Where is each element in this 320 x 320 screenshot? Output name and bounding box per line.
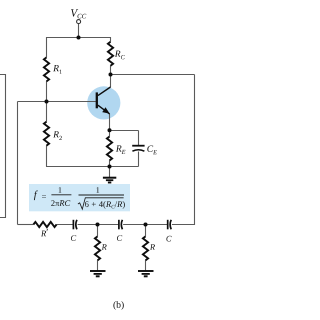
wire CE bottom lead: [138, 152, 140, 167]
resistor R1: [44, 57, 49, 81]
wire feedback vertical: [17, 102, 19, 225]
resistor R (ladder 1): [95, 236, 100, 260]
wire R' to C1: [56, 224, 72, 226]
formula equals: [42, 195, 46, 197]
caption (b): [113, 301, 123, 310]
wire emitter vertical: [109, 114, 111, 131]
formula f = 1/(2piRC) * 1/sqrt(6+4(Rc/R)): [34, 187, 125, 209]
capacitor C1: [73, 220, 77, 230]
node ladder junction 1: [96, 223, 100, 227]
ground under RE: [103, 178, 116, 183]
wire left branch upper: [46, 37, 48, 57]
formula fraction 1 denominator 2piRC: [51, 200, 70, 206]
ground under ladder R2: [138, 271, 154, 276]
wire CE top lead: [138, 131, 140, 146]
capacitor CE: [132, 146, 144, 152]
label RC: [115, 51, 125, 60]
wire collector stub: [110, 75, 112, 88]
formula f: [34, 191, 38, 201]
base bar: [96, 92, 98, 108]
label R1: [53, 65, 62, 74]
transistor Q1: [97, 87, 111, 114]
formula fraction 1 bar: [51, 194, 71, 196]
label R2: [53, 131, 62, 140]
label R': [41, 229, 48, 236]
wire base: [18, 101, 96, 103]
node Vcc junction: [77, 36, 81, 40]
node ladder junction 2: [144, 223, 148, 227]
wire ladder R1 bottom stem: [97, 260, 99, 270]
formula fraction 2 numerator: [96, 187, 99, 193]
wire ground1 stem: [109, 167, 111, 178]
wire RE bottom lead: [109, 161, 111, 167]
wire bottom bus: [46, 166, 139, 168]
formula radicand 6+4(Rc/R): [85, 201, 125, 209]
label R ladder 2: [150, 244, 155, 250]
wire left branch middle: [46, 81, 48, 122]
wire left stub from edge: [0, 75, 6, 218]
collector lead: [98, 87, 111, 96]
wire top bus: [47, 37, 111, 39]
wire C3 to right corner: [172, 224, 195, 226]
Vcc terminal circle: [77, 20, 81, 24]
wire RE top lead: [109, 131, 111, 137]
label Vcc: [71, 9, 86, 18]
wire Rc top lead: [110, 37, 112, 42]
node emitter junction: [108, 128, 112, 132]
label C2: [117, 235, 122, 241]
label RE: [116, 145, 126, 154]
capacitor C3: [168, 220, 172, 230]
label C3: [166, 236, 171, 242]
formula fraction 2 bar: [79, 194, 125, 196]
ground under ladder R1: [90, 271, 106, 276]
node collector junction: [109, 73, 113, 77]
node bottom bus ground junction: [108, 165, 112, 169]
resistor R2: [44, 122, 49, 146]
formula highlight box: [29, 184, 130, 211]
resistor RC: [108, 42, 113, 66]
wire left branch lower: [46, 145, 48, 166]
label C1: [71, 235, 76, 241]
resistor RE: [107, 137, 112, 161]
emitter arrow: [103, 108, 109, 113]
formula fraction 1 numerator: [59, 187, 62, 193]
capacitor C2: [119, 220, 123, 230]
wire right vertical: [194, 75, 196, 226]
node base divider junction: [45, 100, 49, 104]
wire C1 to C2: [78, 224, 119, 226]
resistor R' (horizontal): [33, 222, 56, 227]
wire ladder R1 top stem: [97, 225, 99, 237]
wire C2 to C3: [123, 224, 167, 226]
transistor highlight circle: [87, 86, 120, 119]
label CE: [147, 146, 157, 155]
emitter lead: [98, 105, 110, 114]
wire ladder R2 top stem: [145, 225, 147, 237]
formula radical sign: [78, 198, 124, 209]
wire collector horizontal: [111, 74, 195, 76]
label R ladder 1: [102, 244, 107, 250]
wire Vcc stem: [78, 24, 80, 38]
resistor R (ladder 2): [143, 236, 148, 260]
wire ladder left: [18, 224, 34, 226]
wire ladder R2 bottom stem: [145, 260, 147, 270]
wire Rc bottom lead: [110, 66, 112, 75]
wire emitter node to CE: [110, 130, 139, 132]
